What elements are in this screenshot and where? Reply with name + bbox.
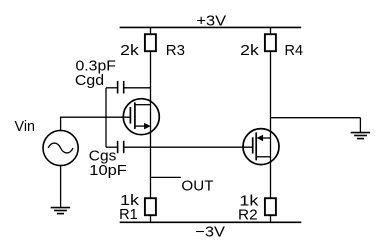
wire: R1 to bottom rail <box>150 216 152 223</box>
wire: top rail to R3 <box>150 27 152 34</box>
capacitor Cgd <box>106 81 151 94</box>
resistor R3 <box>145 34 156 51</box>
label +3V <box>196 12 226 29</box>
label 2k (R4 value) <box>240 42 259 59</box>
label 10pF (Cgs value) <box>89 162 127 179</box>
label R2 <box>238 206 258 223</box>
label Cgs <box>89 147 117 164</box>
svg-text:OUT: OUT <box>181 178 213 195</box>
label OUT (output node) <box>181 178 213 195</box>
svg-text:10pF: 10pF <box>89 162 127 179</box>
label 0.3pF (Cgd value) <box>76 58 116 75</box>
ground (right) <box>351 133 370 139</box>
resistor R1 <box>145 198 156 215</box>
label R4 <box>285 42 304 59</box>
svg-text:−3V: −3V <box>195 224 225 241</box>
label -3V <box>195 224 225 241</box>
capacitor Cgs <box>106 141 124 153</box>
svg-text:Vin: Vin <box>15 118 36 135</box>
svg-text:R3: R3 <box>166 42 185 59</box>
wire: source node of M1 to gate of M2 <box>124 146 252 148</box>
wire: top rail to R4 <box>270 27 272 34</box>
wire: +3V top rail <box>120 26 302 28</box>
wire: drain node to right ground <box>271 118 361 133</box>
wire: R3 drain line down through M1 to R1 <box>150 51 152 198</box>
label 1k (R1 value) <box>120 192 140 209</box>
transistor M2 (right NMOS) <box>243 129 279 165</box>
resistor R2 <box>265 198 276 215</box>
label R3 <box>166 42 185 59</box>
transistor M1 (left NMOS) <box>123 99 159 135</box>
svg-text:Cgd: Cgd <box>75 72 104 89</box>
svg-text:2k: 2k <box>240 42 259 59</box>
wire: Vin bottom to ground <box>60 166 62 207</box>
label 1k (R2 value) <box>239 193 259 210</box>
label R1 <box>119 206 138 223</box>
voltage source Vin <box>43 130 78 165</box>
ground (below Vin) <box>51 208 70 214</box>
wire: R4 drain line down through M2 to R2 <box>270 51 272 198</box>
svg-text:2k: 2k <box>120 42 139 59</box>
label Vin <box>15 118 36 135</box>
svg-text:+3V: +3V <box>196 12 226 29</box>
wire: R2 to bottom rail <box>270 216 272 223</box>
wire: gate node vertical (Cgd to Cgs) <box>105 88 107 147</box>
wire: -3V bottom rail <box>120 221 302 223</box>
wire: Vin top to M1 gate <box>61 117 131 130</box>
svg-text:R1: R1 <box>119 206 138 223</box>
svg-text:R2: R2 <box>238 206 258 223</box>
label 2k (R3 value) <box>120 42 139 59</box>
svg-text:R4: R4 <box>285 42 304 59</box>
resistor R4 <box>265 34 276 51</box>
label Cgd <box>75 72 104 89</box>
wire: OUT stub <box>151 176 181 178</box>
